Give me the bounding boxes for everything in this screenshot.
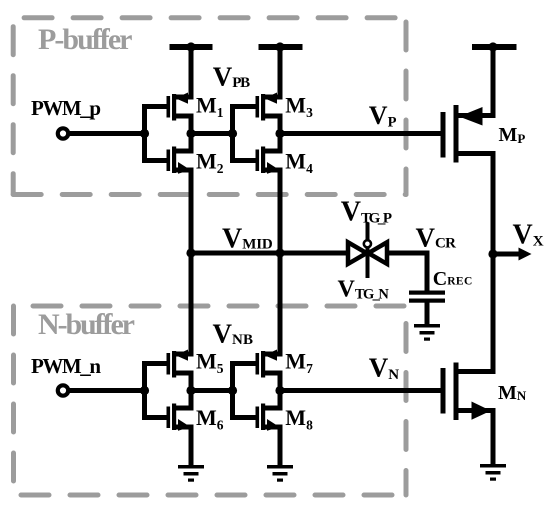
svg-text:VMID: VMID <box>222 223 273 254</box>
transistor MP <box>441 105 483 163</box>
svg-text:VNB: VNB <box>213 318 254 348</box>
svg-text:M8: M8 <box>285 405 313 433</box>
wire M5 drain to node <box>176 373 191 391</box>
V_X output arrow <box>493 248 532 261</box>
wire gate bus M3 M4 <box>233 107 257 161</box>
svg-text:M2: M2 <box>196 149 224 177</box>
node dot gate bus M7 M8 <box>228 386 237 395</box>
node dot M5 M6 drains <box>186 386 195 395</box>
supply rail above MP <box>472 44 517 50</box>
svg-text:N-buffer: N-buffer <box>38 308 135 341</box>
wire V_MID <box>191 251 348 256</box>
wire MN source to ground <box>459 411 494 465</box>
wire rail to M3 source <box>265 47 280 97</box>
wire node1 to gate bus M3 M4 <box>191 131 233 136</box>
wire PWM_n to gate bus <box>69 388 145 393</box>
transistor M8 <box>256 404 280 431</box>
N-buffer dashed box <box>14 306 407 495</box>
svg-text:M5: M5 <box>196 348 224 376</box>
transistor M6 <box>167 404 191 431</box>
PWM_p input terminal <box>58 128 68 138</box>
svg-text:M3: M3 <box>285 93 313 121</box>
wire capacitor to ground <box>425 303 430 325</box>
wire M6 drain to node <box>176 391 191 409</box>
wire M6 source to ground <box>176 427 191 465</box>
svg-text:M7: M7 <box>285 348 313 376</box>
svg-text:VX: VX <box>513 220 544 251</box>
node dot rail 1 <box>186 42 195 51</box>
wire M3 drain to node <box>265 116 280 134</box>
wire gate bus M1 M2 <box>145 107 168 161</box>
node dot V_P <box>275 129 284 138</box>
wire TG gate stem <box>366 223 370 279</box>
node dot V_MID left <box>186 248 195 257</box>
transistor M2 <box>167 147 191 174</box>
svg-text:P-buffer: P-buffer <box>38 23 133 56</box>
svg-text:M1: M1 <box>196 93 224 121</box>
ground below MN <box>480 464 506 481</box>
wire V_N <box>280 388 441 393</box>
svg-text:PWM_p: PWM_p <box>31 96 101 120</box>
wire M2 source down to V_MID <box>176 170 191 253</box>
wire V_P <box>280 131 441 136</box>
wire MP drain to V_X to MN drain <box>459 154 494 372</box>
node dot rail 2 <box>275 42 284 51</box>
wire M1 drain to node <box>176 116 191 134</box>
wire node3 to gate bus M7 M8 <box>191 388 233 393</box>
supply rail above M3 M4 <box>259 44 303 50</box>
svg-text:VTG_P: VTG_P <box>341 196 392 227</box>
transistor M1 <box>167 93 189 121</box>
node dot V_MID right <box>275 248 284 257</box>
ground below C_REC <box>414 324 440 341</box>
wire rail to MP source <box>459 47 494 116</box>
ground below M8 <box>267 465 293 482</box>
node dot rail 3 <box>488 42 497 51</box>
transistor M7 <box>256 350 278 378</box>
wire V_MID to M5 source <box>176 253 191 354</box>
svg-text:CREC: CREC <box>433 268 472 290</box>
transistor MN <box>441 363 491 421</box>
wire M8 drain to node <box>265 391 280 409</box>
wire PWM_p to gate bus <box>69 131 145 136</box>
transistor M4 <box>256 147 280 174</box>
wire M8 source to ground <box>265 427 280 465</box>
svg-text:VCR: VCR <box>416 223 457 253</box>
svg-text:VP: VP <box>369 101 397 131</box>
svg-text:VN: VN <box>369 352 400 383</box>
ground below M6 <box>178 465 204 482</box>
TG pmos bubble <box>364 240 371 247</box>
svg-text:MP: MP <box>499 124 526 146</box>
node dot PWM_n gate bus <box>140 386 149 395</box>
node dot PWM_p gate bus <box>140 129 149 138</box>
wire rail to M1 source <box>176 47 191 97</box>
transistor M5 <box>167 350 189 378</box>
node dot gate bus M3 M4 <box>228 129 237 138</box>
wire M4 source down to V_MID <box>265 170 280 253</box>
P-buffer dashed box <box>13 18 406 195</box>
transmission gate TG <box>348 242 387 264</box>
transistor M3 <box>256 93 278 121</box>
capacitor C_REC <box>409 291 445 303</box>
supply rail above M1 M2 <box>170 44 213 50</box>
wire M2 drain to node <box>176 134 191 152</box>
svg-text:M4: M4 <box>285 149 313 177</box>
node dot V_N <box>275 386 284 395</box>
wire M7 drain to node <box>265 373 280 391</box>
PWM_n input terminal <box>58 385 68 395</box>
svg-text:PWM_n: PWM_n <box>31 354 101 378</box>
wire gate bus M5 M6 <box>145 364 168 418</box>
wire V_MID to M7 source <box>265 253 280 354</box>
svg-text:VPB: VPB <box>213 62 251 92</box>
wire M4 drain to node <box>265 134 280 152</box>
wire gate bus M7 M8 <box>233 364 257 418</box>
node dot M1 M2 drains <box>186 129 195 138</box>
node dot V_X <box>488 249 497 258</box>
wire TG to V_CR capacitor <box>387 253 427 291</box>
svg-text:M6: M6 <box>196 405 224 433</box>
svg-text:VTG_N: VTG_N <box>338 276 390 302</box>
svg-text:MN: MN <box>498 382 527 404</box>
